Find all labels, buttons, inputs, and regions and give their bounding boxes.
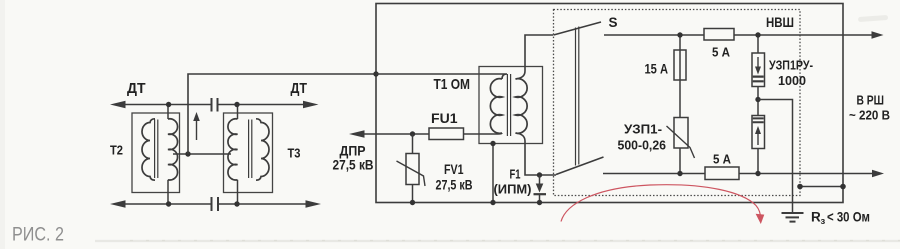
svg-text:РИС. 2: РИС. 2 [12, 225, 64, 246]
junction tank earth bottom [490, 200, 495, 205]
distribution cabinet dashed box [554, 10, 801, 196]
surge protector branch wire [757, 35, 759, 174]
svg-text:Т2: Т2 [110, 143, 123, 158]
svg-text:R: R [811, 210, 821, 225]
T1 core [507, 74, 510, 136]
junction T3 top [234, 102, 239, 107]
svg-text:Т3: Т3 [288, 146, 301, 161]
ground symbol [782, 213, 804, 222]
T3 secondary winding (right, 3 humps) [256, 119, 269, 180]
svg-text:FU1: FU1 [431, 110, 458, 126]
capacitor C top (between rails of T2/T3) [212, 98, 218, 112]
T1 secondary winding (right, 3 humps) [516, 79, 528, 134]
scan artifact left edge shade [0, 0, 5, 249]
junction УЗП1РУ top [755, 32, 760, 37]
wire T2 winding top to rail [167, 105, 169, 120]
fuse 15A [674, 50, 686, 80]
arrowhead DPR feeder [349, 130, 365, 138]
svg-text:S: S [609, 15, 618, 30]
junction middle tap node [185, 151, 190, 156]
spark gap F1 arrow [539, 175, 541, 186]
junction 15A top [677, 32, 682, 37]
equipment enclosure box [376, 4, 843, 203]
scan artifact bottom band [95, 240, 900, 242]
wire middle tap T2 to T3 [173, 153, 231, 155]
transformer T3 box [224, 113, 273, 193]
switch S linkage [576, 27, 579, 166]
junction surge mid node [755, 97, 760, 102]
junction T3 bottom [234, 201, 239, 206]
junction T2 top [166, 102, 171, 107]
arrowhead left of bottom rail [110, 200, 126, 208]
wire FU1 to DPR feeder [362, 133, 429, 135]
fuse FU1 [429, 128, 464, 140]
T3 core [249, 120, 252, 179]
junction tank earth top [490, 141, 495, 146]
transformer T1 box [479, 67, 543, 144]
arrowhead right of bottom rail [306, 200, 322, 208]
junction FV1 tap [410, 131, 415, 136]
svg-text:27,5 кВ: 27,5 кВ [333, 157, 374, 173]
bottom 220V rail [603, 173, 880, 175]
junction surge bottom [755, 171, 760, 176]
15A branch wire [679, 35, 681, 174]
T2 core [155, 120, 158, 179]
left rail top (track line with double arrows) [122, 104, 307, 106]
top 220V rail [604, 34, 879, 36]
current direction arrow up [196, 119, 198, 140]
wire feeder riser from tap node up and right to box [188, 74, 376, 154]
svg-text:5 А: 5 А [713, 152, 732, 167]
svg-text:з: з [821, 216, 826, 227]
fuse 5A bottom [705, 167, 739, 180]
junction F1 earth [537, 200, 542, 205]
wire primary bottom to FU1 [464, 133, 503, 134]
T3 main winding (left, 4 humps) [228, 119, 238, 180]
enclosure bond link [800, 186, 843, 188]
svg-text:В РШ: В РШ [857, 93, 885, 108]
arrowhead right of top rail [303, 101, 319, 109]
arrowhead bottom rail [872, 170, 884, 177]
svg-text:УЗП1РУ-: УЗП1РУ- [769, 58, 813, 73]
svg-text:ДТ: ДТ [127, 81, 146, 97]
arrester FV1 body [406, 154, 419, 185]
junction 15A bottom [677, 171, 682, 176]
junction FV1 earth [410, 200, 415, 205]
junction bond left [797, 184, 803, 190]
capacitor C bottom [212, 197, 219, 211]
wire T2 winding bottom to rail [167, 180, 169, 204]
wire T1 secondary top riser to switch [516, 35, 554, 79]
svg-text:< 30 Ом: < 30 Ом [827, 210, 870, 225]
svg-text:УЗП1-: УЗП1- [624, 122, 662, 137]
svg-text:(ИПМ): (ИПМ) [494, 182, 532, 197]
wire feeder inside box to T1 [376, 74, 507, 79]
svg-text:1000: 1000 [778, 73, 806, 88]
svg-text:500-0,26: 500-0,26 [618, 138, 667, 153]
svg-text:F1: F1 [510, 168, 521, 182]
svg-text:FV1: FV1 [444, 161, 464, 177]
switch S blade bottom [556, 157, 604, 175]
wire FV1 branch [412, 134, 414, 203]
wire T3 winding top to rail [237, 105, 239, 120]
svg-text:5 А: 5 А [712, 45, 731, 60]
wire T1 tank earth [492, 144, 494, 203]
wire T1 secondary bottom drop [516, 133, 557, 175]
fuse 5A top [704, 29, 734, 41]
spark gap F1 junction [537, 172, 542, 177]
arrester УЗП1-500 body [674, 118, 688, 149]
wire T3 winding bottom to rail [237, 180, 239, 204]
svg-text:НВШ: НВШ [766, 15, 794, 30]
arrester УЗП1-500 stroke [667, 126, 695, 158]
surge protector УЗП1РУ lower element [752, 116, 765, 149]
left rail bottom [122, 203, 308, 205]
T2 secondary winding (left, 3 humps) [142, 119, 155, 180]
svg-text:Т1 ОМ: Т1 ОМ [434, 76, 471, 93]
T1 primary winding (left, 3 humps) [490, 79, 502, 134]
switch S blade top [554, 22, 602, 35]
earth wire from surge mid node [758, 100, 793, 213]
spark gap F1 plate [534, 193, 547, 195]
arrowhead left of top rail [110, 101, 126, 109]
red annotation arc [561, 185, 761, 222]
svg-text:15 А: 15 А [645, 62, 669, 77]
red annotation arrowhead [756, 214, 765, 224]
scan artifact top right [858, 15, 888, 22]
svg-text:ДТ: ДТ [291, 81, 308, 97]
svg-text:27,5 кВ: 27,5 кВ [436, 177, 473, 193]
svg-text:~ 220 В: ~ 220 В [849, 108, 890, 123]
junction feeder at enclosure wall [373, 71, 378, 76]
arrowhead top rail [872, 31, 884, 38]
surge protector УЗП1РУ upper element [752, 53, 765, 87]
junction bond right [840, 184, 846, 190]
junction T2 bottom [166, 201, 171, 206]
transformer T2 box [132, 113, 180, 193]
T2 main winding (right, 4 humps) [168, 119, 178, 180]
arrester FV1 stroke with tail [397, 161, 426, 186]
